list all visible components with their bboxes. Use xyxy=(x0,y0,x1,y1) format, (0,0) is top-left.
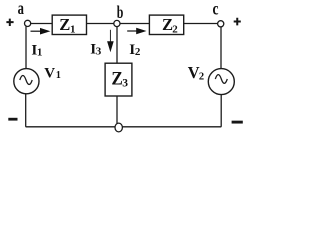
svg-text:V: V xyxy=(44,66,55,82)
svg-text:3: 3 xyxy=(122,78,128,90)
svg-text:3: 3 xyxy=(96,46,102,58)
svg-text:1: 1 xyxy=(56,70,61,81)
svg-text:1: 1 xyxy=(70,23,76,35)
svg-text:a: a xyxy=(18,0,24,18)
svg-text:c: c xyxy=(213,0,219,18)
svg-text:Z: Z xyxy=(111,68,122,89)
svg-text:2: 2 xyxy=(199,71,204,82)
svg-text:2: 2 xyxy=(135,46,141,58)
svg-text:1: 1 xyxy=(37,46,43,58)
svg-text:Z: Z xyxy=(59,15,70,34)
svg-text:2: 2 xyxy=(172,23,178,35)
svg-text:b: b xyxy=(117,2,124,22)
